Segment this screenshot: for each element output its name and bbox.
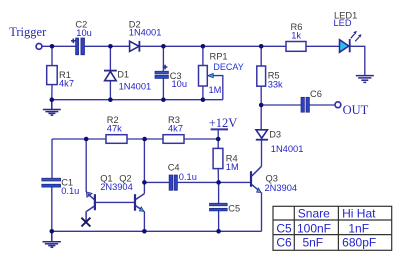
wire mid rail y=99.7 xyxy=(52,99,223,101)
wire RP1 wiper xyxy=(213,76,223,100)
wire C6 to out terminal xyxy=(309,104,335,106)
ground (bottom rail) xyxy=(43,231,61,247)
svg-text:1N4001: 1N4001 xyxy=(129,28,162,38)
wire RP1 top xyxy=(202,46,204,65)
capacitor C5 xyxy=(210,203,241,213)
wire R3 to 12V node xyxy=(184,138,218,140)
wire D2 to R6 xyxy=(140,45,286,47)
ground (LED) xyxy=(356,76,374,83)
wire R5 top xyxy=(260,46,262,66)
wire top rail left xyxy=(42,45,76,47)
svg-text:C6: C6 xyxy=(276,236,292,250)
svg-text:100nF: 100nF xyxy=(297,221,331,235)
node 12V junction xyxy=(216,137,221,142)
wire D3 to Q3 collector xyxy=(261,140,263,166)
node D2 anode junction xyxy=(108,44,113,49)
wire LED to ground corner xyxy=(350,46,364,75)
wire R2 rail left xyxy=(52,138,106,140)
svg-text:1nF: 1nF xyxy=(348,221,369,235)
wire C3 top xyxy=(162,46,164,71)
svg-text:1k: 1k xyxy=(291,30,301,40)
node R5 top junction xyxy=(259,44,264,49)
svg-text:+12V: +12V xyxy=(209,116,238,130)
svg-text:C5: C5 xyxy=(276,221,292,235)
resistor R5 xyxy=(257,66,283,90)
node D2 cathode junction xyxy=(161,44,166,49)
wire R2 to R3 xyxy=(127,138,163,140)
wire bottom rail xyxy=(52,230,262,232)
wire Q3 emitter drop xyxy=(261,192,263,231)
svg-text:1M: 1M xyxy=(226,162,239,172)
wire C1 top xyxy=(51,139,53,178)
wire D1 top xyxy=(109,46,111,70)
wire C4 rail left xyxy=(145,181,170,183)
svg-text:C6: C6 xyxy=(310,89,322,99)
wire Q1-Q2 base link xyxy=(96,201,135,203)
wire R5 bottom xyxy=(260,86,262,105)
ground (R1) xyxy=(43,100,61,116)
svg-text:1N4001: 1N4001 xyxy=(119,82,152,92)
capacitor C2 xyxy=(71,20,92,55)
svg-text:4k7: 4k7 xyxy=(168,123,183,133)
node RP1 bottom junction xyxy=(201,97,206,102)
wire C5 top xyxy=(218,182,220,203)
node bottom ground junction xyxy=(50,229,55,234)
wire 12V stub xyxy=(217,129,219,139)
svg-text:1N4001: 1N4001 xyxy=(271,144,304,154)
resistor R4 xyxy=(213,148,239,172)
svg-text:10u: 10u xyxy=(172,79,188,89)
svg-text:D3: D3 xyxy=(269,129,281,139)
wire Q1 collector drop xyxy=(85,139,87,192)
no-connect X (Q1 emitter) xyxy=(81,218,90,227)
resistor R6 xyxy=(286,22,306,51)
svg-text:2N3904: 2N3904 xyxy=(265,183,298,193)
transistor Q3 xyxy=(251,166,297,193)
wire D1 bottom xyxy=(109,81,111,100)
resistor R2 xyxy=(106,115,127,143)
svg-text:2N3904: 2N3904 xyxy=(100,182,133,192)
svg-text:LED: LED xyxy=(334,18,352,28)
svg-text:0.1u: 0.1u xyxy=(179,172,197,182)
svg-text:Trigger: Trigger xyxy=(9,25,47,39)
svg-text:Snare: Snare xyxy=(298,207,330,221)
capacitor C3 xyxy=(155,65,187,89)
LED LED1 xyxy=(334,10,362,52)
svg-text:33k: 33k xyxy=(268,80,283,90)
wire C1 bottom xyxy=(51,187,53,231)
diode D2 xyxy=(129,20,162,52)
svg-text:4k7: 4k7 xyxy=(59,78,74,88)
diode D1 xyxy=(104,70,151,92)
svg-text:5nF: 5nF xyxy=(302,236,323,250)
svg-text:680pF: 680pF xyxy=(342,236,376,250)
node RP1 top junction xyxy=(201,44,206,49)
transistor Q2 xyxy=(100,173,144,211)
capacitor C1 xyxy=(42,178,80,196)
svg-text:Q3: Q3 xyxy=(266,174,278,184)
wire out rail to C6 xyxy=(261,104,301,106)
potentiometer RP1 xyxy=(199,52,244,95)
wire C3 bottom xyxy=(162,78,164,99)
wire RP1 bottom xyxy=(202,86,204,100)
svg-text:Hi Hat: Hi Hat xyxy=(342,207,376,221)
node Q1 base rail junction xyxy=(84,137,89,142)
power bar +12V xyxy=(211,128,228,130)
node C5 bottom junction xyxy=(216,229,221,234)
svg-text:1M: 1M xyxy=(209,85,222,95)
node Q2 collector rail junction xyxy=(142,137,147,142)
node D1 bottom junction xyxy=(108,97,113,102)
wire R1 top xyxy=(51,46,53,65)
resistor R3 xyxy=(163,115,184,143)
terminal OUT xyxy=(335,102,341,108)
table component values xyxy=(273,206,392,250)
node trigger junction xyxy=(50,44,55,49)
wire Q2 emitter drop xyxy=(143,211,145,231)
node R4 C5 Q3 base junction xyxy=(216,180,221,185)
wire D3 top xyxy=(260,105,262,130)
svg-text:D1: D1 xyxy=(117,70,129,80)
node R1 ground junction xyxy=(50,97,55,102)
transistor Q1 xyxy=(86,173,113,221)
node Q2 collector C4 junction xyxy=(142,180,147,185)
resistor R1 xyxy=(47,66,58,85)
svg-text:C5: C5 xyxy=(228,203,240,213)
svg-text:OUT: OUT xyxy=(343,103,369,117)
capacitor C4 xyxy=(168,163,197,191)
svg-text:47k: 47k xyxy=(107,123,122,133)
svg-text:DECAY: DECAY xyxy=(213,62,243,72)
node Q2 emitter junction xyxy=(142,229,147,234)
wire Q2 collector riser xyxy=(143,139,145,194)
wire R4 top xyxy=(217,139,219,148)
wire R6 to LED xyxy=(306,45,340,47)
wire C5 bottom xyxy=(218,211,220,231)
wire C4 to Q3 base xyxy=(177,181,251,183)
svg-text:RP1: RP1 xyxy=(210,52,228,62)
wire R1 bottom xyxy=(51,85,53,100)
diode D3 xyxy=(256,129,304,154)
svg-text:10u: 10u xyxy=(76,28,92,38)
wire R4 bottom xyxy=(217,169,219,183)
svg-text:C4: C4 xyxy=(168,163,180,173)
node C3 bottom junction xyxy=(161,97,166,102)
terminal Trigger xyxy=(36,44,42,50)
svg-text:0.1u: 0.1u xyxy=(61,186,79,196)
wire C2 to D2 xyxy=(85,45,130,47)
capacitor C6 xyxy=(301,89,322,112)
node out junction xyxy=(259,103,264,108)
